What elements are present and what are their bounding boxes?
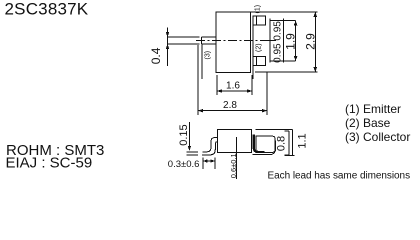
package name text: [6, 142, 105, 172]
svg-text:0.8: 0.8: [276, 136, 288, 151]
dimension 1.9 line with arrows: [295, 21, 297, 62]
svg-text:(2): (2): [255, 43, 262, 52]
dimension text 0.4 rotated: [149, 47, 163, 64]
svg-text:(3) Collector: (3) Collector: [345, 130, 410, 144]
svg-text:EIAJ : SC-59: EIAJ : SC-59: [6, 155, 93, 172]
top view: package body outline: [216, 12, 251, 73]
dimension 1.6 extension lines: [217, 75, 252, 95]
dimension text 1.9 rotated: [283, 33, 297, 50]
svg-text:1.1: 1.1: [297, 133, 309, 148]
side view: right lead bend band: [254, 135, 265, 152]
dimension 1.6 line with arrows: [217, 90, 252, 92]
svg-text:1.9: 1.9: [283, 33, 297, 50]
side view: right lead flat face: [256, 136, 275, 152]
label (2) rotated: [255, 43, 262, 52]
dimension 0.15 leader and ticks: [187, 122, 199, 155]
dimension 0.8 bracket: [285, 131, 290, 155]
dimension 0.4 vertical line with outside arrows: [167, 28, 169, 67]
top view: lead (1) top right: [253, 16, 265, 25]
dimension 0.3 extension lines: [203, 158, 215, 170]
svg-text:0.15: 0.15: [178, 124, 190, 145]
svg-text:Each lead has same dimensions: Each lead has same dimensions: [268, 171, 411, 182]
label (1) rotated: [255, 5, 262, 14]
extension line top for 1.1: [255, 129, 292, 131]
side view: left lead gull wing lower: [202, 142, 218, 155]
top view: horizontal dash-dot centerline: [196, 40, 262, 42]
top view: lead (2) bottom right: [253, 57, 265, 66]
pin function list: [345, 102, 410, 144]
side view: left lead gull wing upper: [202, 138, 217, 152]
svg-text:0.4: 0.4: [149, 47, 163, 64]
projection line from lead 3 tip: [201, 44, 203, 79]
dimension text 2.9 rotated: [304, 33, 318, 50]
svg-text:0.95 0.95: 0.95 0.95: [273, 21, 284, 63]
svg-text:2.9: 2.9: [304, 33, 318, 50]
top view: lead (3) left: [202, 37, 217, 44]
part number title 2SC3837K: [5, 0, 89, 19]
dimension text 2.8: [223, 100, 237, 111]
svg-text:1.6: 1.6: [226, 81, 240, 92]
dimension text 0.8 rotated: [276, 136, 288, 151]
side view: body outline: [218, 129, 252, 152]
extension lines body top/bottom right: [251, 12, 317, 72]
dimension 2.8 extension lines: [198, 45, 267, 115]
label (3) rotated: [205, 51, 212, 60]
svg-text:(1) Emitter: (1) Emitter: [345, 102, 401, 116]
dimension text 0.15 rotated: [178, 124, 190, 145]
dimension text 1.6: [226, 81, 240, 92]
extension lines for pin pitch (right): [262, 21, 296, 62]
svg-text:2SC3837K: 2SC3837K: [5, 0, 89, 19]
side view: centerline vertical with text 0.6±0.1: [235, 137, 237, 179]
svg-text:(3): (3): [205, 51, 212, 60]
dimension 2.8 line with arrows: [198, 110, 267, 112]
dimension 1.1 line: [291, 130, 293, 156]
svg-text:2.8: 2.8: [223, 100, 237, 111]
projection line from pins left edge: [252, 16, 254, 79]
svg-text:0.3±0.6: 0.3±0.6: [168, 159, 200, 170]
side view: right lead outer foot curve: [253, 140, 276, 154]
svg-text:0.6±0.1: 0.6±0.1: [229, 153, 238, 178]
dimension 2.9 line with arrows: [314, 12, 316, 72]
dimension text 0.3±0.6: [168, 159, 200, 170]
0.95 bracket lines: [270, 19, 283, 63]
dimension 0.4 extension lines: [168, 37, 200, 44]
dimension 0.3 line with arrows: [203, 160, 215, 162]
svg-text:(2) Base: (2) Base: [345, 116, 391, 130]
footnote: [268, 171, 411, 182]
dimension text 1.1 rotated: [297, 133, 309, 148]
dimension text 0.95 0.95 rotated: [273, 21, 284, 63]
extension line bottom for 0.8/1.1: [285, 154, 295, 156]
